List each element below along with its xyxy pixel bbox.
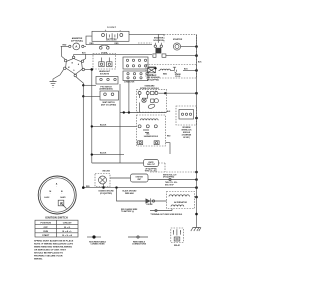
wire to key unit <box>92 162 144 164</box>
battery terminal left <box>102 34 105 37</box>
battery label 12V <box>107 27 116 29</box>
svg-text:M: M <box>49 191 51 193</box>
svg-text:MAG: MAG <box>163 73 168 76</box>
ignition unit box R1 <box>131 174 149 182</box>
svg-text:CONNECTIONS: CONNECTIONS <box>91 244 106 246</box>
wire starter to bus <box>181 46 197 48</box>
main ground row <box>83 187 196 189</box>
wire V1 from key switch down <box>76 77 83 188</box>
ignition switch table <box>35 220 78 237</box>
junction dot <box>91 153 93 155</box>
dashed wire right <box>159 163 166 172</box>
svg-text:(DISENGAGED): (DISENGAGED) <box>99 88 113 91</box>
svg-text:PLUG: PLUG <box>175 76 181 78</box>
wire key switch B bus <box>74 53 152 55</box>
connector J1 <box>123 57 148 69</box>
svg-text:IGNITION: IGNITION <box>136 177 144 179</box>
svg-text:(IF EQUIPPED): (IF EQUIPPED) <box>147 79 159 81</box>
wire J1 to solenoid node <box>148 67 156 68</box>
wire branch to plug box <box>83 84 96 86</box>
svg-text:WHITE: WHITE <box>148 162 153 164</box>
junction dot <box>195 178 198 181</box>
battery icon legend <box>171 228 184 247</box>
junction dot <box>195 171 198 174</box>
junction dot <box>82 95 84 97</box>
svg-text:(OPTIONAL): (OPTIONAL) <box>71 39 83 42</box>
fuse F1 <box>99 45 109 54</box>
svg-text:START: START <box>42 234 50 237</box>
svg-text:UNIT: UNIT <box>137 179 141 181</box>
svg-text:W/ KEY): W/ KEY) <box>183 137 190 139</box>
svg-text:PROPERLY SECURE YOUR: PROPERLY SECURE YOUR <box>34 256 63 258</box>
wire key switch ground lead <box>53 69 64 81</box>
svg-text:RELAY: RELAY <box>174 244 181 247</box>
wire alternator to bus <box>195 196 197 198</box>
junction dot <box>123 111 125 113</box>
spark plug P1 <box>172 67 182 78</box>
svg-text:IGNITION SWITCH: IGNITION SWITCH <box>45 216 68 220</box>
svg-text:WHITE FUEL CUT: WHITE FUEL CUT <box>163 174 176 176</box>
inline connector circle <box>169 178 171 180</box>
junction dot <box>195 92 198 95</box>
module bus line <box>120 112 167 114</box>
legend removable <box>128 236 148 246</box>
junction dot <box>195 54 198 57</box>
svg-text:THRU CYL. SOL.: THRU CYL. SOL. <box>165 182 178 184</box>
ground bus wire <box>196 35 198 226</box>
junction dot <box>115 186 117 188</box>
junction dot <box>195 117 198 120</box>
svg-text:TO BATTERY (+): TO BATTERY (+) <box>121 210 135 213</box>
svg-text:M + G: M + G <box>64 227 70 229</box>
svg-text:OFF: OFF <box>44 227 49 229</box>
svg-text:STARTER: STARTER <box>173 38 183 41</box>
PTO switch box L1 <box>96 77 118 91</box>
svg-text:SOCKETS: SOCKETS <box>100 74 110 76</box>
junction dot <box>102 186 104 188</box>
svg-text:BLACK: BLACK <box>100 124 107 127</box>
svg-text:12 VOLT: 12 VOLT <box>107 27 116 29</box>
ignition coil box <box>148 68 156 77</box>
wire V2 from key switch right <box>85 69 92 163</box>
key switch S1 <box>64 54 85 76</box>
connector J2 <box>123 71 148 81</box>
svg-text:FUEL CUT: FUEL CUT <box>147 164 155 166</box>
svg-text:L&G2: L&G2 <box>44 197 49 199</box>
svg-text:RUN: RUN <box>43 231 48 233</box>
engine dashed boundary <box>138 35 197 78</box>
wire module U1 to bus <box>165 93 196 94</box>
legend non-removable <box>87 235 107 245</box>
starter solenoid K1 <box>153 34 166 57</box>
battery BAT1 box <box>92 29 129 41</box>
svg-text:WIRING.: WIRING. <box>34 259 43 261</box>
junction dot <box>128 111 130 113</box>
junction dot <box>195 213 198 216</box>
svg-text:S: S <box>139 91 140 93</box>
junction pin dot <box>164 92 166 94</box>
junction dot <box>82 186 85 189</box>
wire magneto to bus <box>183 69 197 71</box>
svg-text:POSITION: POSITION <box>40 223 51 225</box>
wire R1 to bus <box>148 179 197 181</box>
junction dot <box>195 45 198 48</box>
svg-text:B + S + A: B + S + A <box>62 234 72 237</box>
wire V4 connector down <box>128 81 130 113</box>
svg-text:(NOT OCCUPIED): (NOT OCCUPIED) <box>101 104 116 106</box>
wire branch to seat switch <box>83 95 100 97</box>
svg-text:RED: RED <box>115 43 120 45</box>
magneto T1 <box>159 69 173 76</box>
alternator G1 <box>167 192 195 209</box>
svg-text:NOTE: IF WIRING INSULATION CLI: NOTE: IF WIRING INSULATION CLIPS <box>34 243 74 246</box>
svg-text:B + A + L: B + A + L <box>63 230 73 233</box>
diode D1 <box>117 188 167 207</box>
svg-text:WERE REMOVED WHEN RE-WIRING: WERE REMOVED WHEN RE-WIRING <box>34 247 72 249</box>
chassis ground bottom <box>191 226 201 232</box>
junction dot <box>154 67 156 69</box>
wire V3 down from connectors <box>119 84 121 163</box>
junction dot <box>91 68 94 71</box>
starter motor M2 <box>173 38 183 50</box>
svg-text:CIRCUIT: CIRCUIT <box>63 223 73 225</box>
chassis ground <box>50 82 57 88</box>
svg-text:CONNECTOR: CONNECTOR <box>124 81 135 83</box>
svg-text:RED: RED <box>90 43 95 45</box>
svg-text:* TERMINAL NOT USED SOME MODEL: * TERMINAL NOT USED SOME MODELS <box>150 213 183 216</box>
svg-text:OR SERVICING OF UNIT. THEY: OR SERVICING OF UNIT. THEY <box>34 250 67 252</box>
wire key switch L terminal <box>62 46 66 59</box>
wire lamp to R1 <box>110 177 131 179</box>
svg-text:CONNECTIONS: CONNECTIONS <box>132 244 147 246</box>
wire battery positive to starter solenoid <box>129 33 164 35</box>
svg-text:SOLENOID: SOLENOID <box>153 40 164 42</box>
svg-text:BATTERY: BATTERY <box>106 39 117 42</box>
wire solenoid to bus <box>166 55 197 57</box>
wire module B right stub <box>166 143 171 154</box>
interlock module U1 <box>137 89 167 112</box>
svg-text:ALTERNATOR: ALTERNATOR <box>174 201 187 204</box>
junction dot <box>91 125 93 127</box>
svg-text:ENG. STOP: ENG. STOP <box>165 184 175 186</box>
svg-text:(IF EQUIPPED): (IF EQUIPPED) <box>163 177 175 179</box>
ignition switch face <box>38 176 76 214</box>
interlock module U1A lower <box>137 115 166 146</box>
wire branch black 2 <box>92 154 124 156</box>
warning paragraph <box>34 240 74 261</box>
wire top red bus <box>86 44 152 46</box>
junction dot <box>195 186 198 189</box>
wire branch black 1 <box>92 125 137 127</box>
inline connector <box>150 209 172 212</box>
key unit box R2 <box>144 160 159 173</box>
seat switch S2 <box>100 91 119 106</box>
svg-text:(IF EQUIPPED): (IF EQUIPPED) <box>145 168 157 170</box>
hour meter lamp DS1 <box>95 171 110 188</box>
junction dot <box>82 84 84 86</box>
ammeter label <box>71 37 83 43</box>
svg-text:G&M1: G&M1 <box>60 197 65 199</box>
label charging row <box>121 208 138 213</box>
headlight socket dashed box <box>93 54 116 76</box>
svg-text:ONE LINE: ONE LINE <box>102 171 110 173</box>
wire battery negative to ammeter bus <box>86 36 92 45</box>
svg-text:SPRING MUST ALWAYS BE IN PLACE: SPRING MUST ALWAYS BE IN PLACE <box>34 240 74 243</box>
svg-text:SHOULD BE REPLACED TO: SHOULD BE REPLACED TO <box>34 252 63 255</box>
ammeter M1 <box>61 43 86 50</box>
svg-text:BLACK: BLACK <box>100 152 107 155</box>
svg-text:(IF EQUIPPED): (IF EQUIPPED) <box>100 193 112 195</box>
reverse interlock module U3 <box>176 106 197 139</box>
svg-text:DIODE: DIODE <box>147 204 154 206</box>
wire key switch A terminal jog <box>83 54 86 60</box>
fuel shutoff label <box>147 75 160 81</box>
junction dot <box>195 196 198 199</box>
junction dot <box>195 69 198 72</box>
svg-text:WIRE ASM.: WIRE ASM. <box>125 192 135 195</box>
svg-text:B: B <box>155 91 156 93</box>
battery terminal right <box>120 34 123 37</box>
